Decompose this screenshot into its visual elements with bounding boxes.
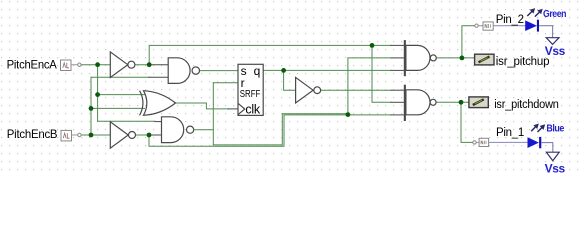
svg-text:PitchEncA: PitchEncA: [7, 57, 57, 71]
svg-text:SRFF: SRFF: [240, 89, 260, 100]
svg-text:r: r: [241, 76, 245, 90]
svg-text:isr_pitchdown: isr_pitchdown: [494, 99, 559, 111]
svg-text:q: q: [254, 64, 261, 78]
svg-text:clk: clk: [245, 103, 260, 117]
svg-text:PitchEncB: PitchEncB: [7, 127, 58, 141]
svg-text:isr_pitchup: isr_pitchup: [496, 56, 550, 68]
svg-text:Vss: Vss: [545, 161, 566, 175]
svg-text:Green: Green: [543, 9, 566, 20]
svg-text:Pin_1: Pin_1: [496, 127, 524, 139]
svg-text:Blue: Blue: [546, 123, 564, 134]
svg-text:Vss: Vss: [545, 44, 566, 58]
svg-text:Pin_2: Pin_2: [496, 14, 524, 26]
